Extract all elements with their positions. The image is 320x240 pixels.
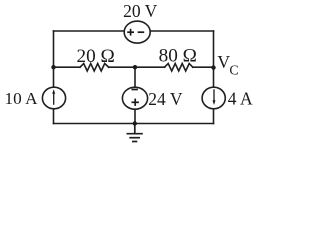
svg-text:C: C bbox=[229, 63, 238, 78]
svg-text:20 Ω: 20 Ω bbox=[76, 46, 114, 67]
ground bbox=[127, 124, 143, 142]
node VC junction bbox=[211, 65, 215, 69]
resistor 80Ω bbox=[165, 64, 193, 72]
voltage source 20 V bbox=[124, 21, 150, 43]
current source 10 A bbox=[42, 87, 65, 109]
svg-text:4 A: 4 A bbox=[228, 89, 253, 109]
wire left bbox=[53, 31, 55, 124]
junction node left bbox=[51, 65, 55, 69]
voltage source 24 V bbox=[122, 87, 147, 109]
wire 24V branch lower bbox=[134, 106, 136, 124]
wire 24V branch upper bbox=[134, 67, 136, 90]
junction node 24V branch top bbox=[133, 65, 137, 69]
svg-text:10 A: 10 A bbox=[5, 89, 39, 108]
svg-text:80 Ω: 80 Ω bbox=[159, 46, 197, 67]
wire middle center bbox=[109, 66, 165, 68]
wire bottom bbox=[54, 123, 214, 125]
svg-text:20 V: 20 V bbox=[123, 1, 158, 21]
svg-text:24 V: 24 V bbox=[148, 89, 183, 109]
wire middle right bbox=[193, 66, 214, 68]
wire middle left bbox=[54, 66, 81, 68]
wire top bbox=[54, 30, 214, 32]
current source 4 A bbox=[202, 87, 225, 109]
wire right bbox=[213, 31, 215, 124]
resistor 20Ω bbox=[80, 64, 109, 72]
junction node ground bbox=[133, 121, 137, 125]
